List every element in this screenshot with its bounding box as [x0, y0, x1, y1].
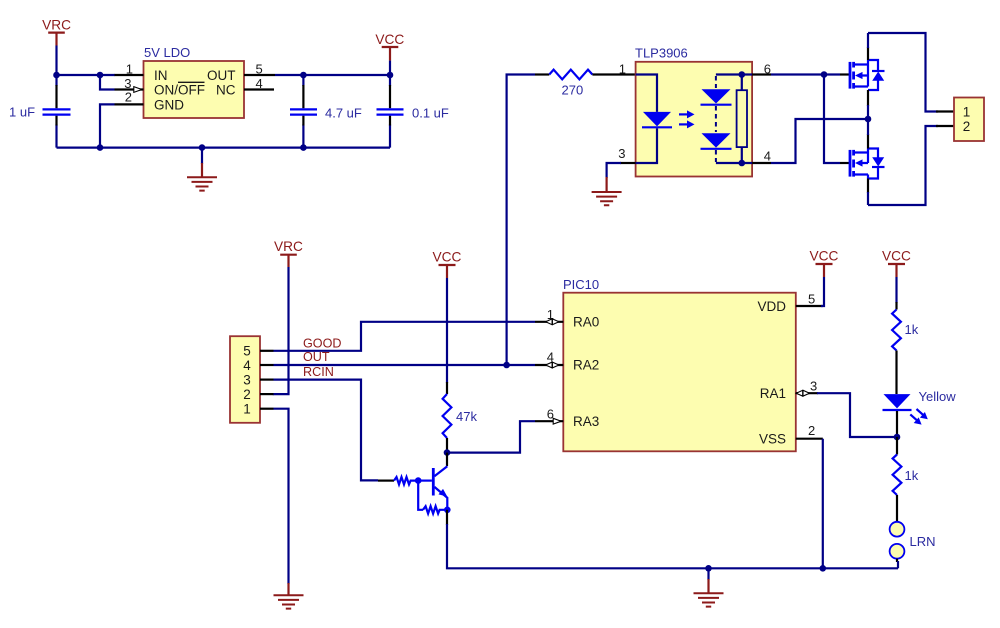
- pin 4 TLP stub: [752, 162, 771, 164]
- regulator U1 5V LDO: [144, 45, 245, 118]
- capacitor C2 4.7 uF: [290, 75, 362, 148]
- connector J1 RC input: [230, 336, 260, 423]
- wire pad to ground rail: [896, 559, 898, 562]
- pad LRN bottom: [890, 544, 905, 559]
- pin 4 bidir arrows: [546, 362, 559, 368]
- node RA2/OUT/TLP junction: [503, 362, 510, 369]
- wire pin6 to MOSFET gates: [771, 73, 840, 75]
- node input-rail junction at cap C1: [53, 72, 60, 79]
- wire upper MOSFET drain up: [867, 47, 869, 60]
- pin 3 RA1 stub: [796, 392, 818, 394]
- pin 4 RA2 stub: [535, 364, 563, 366]
- svg-text:6: 6: [764, 62, 771, 77]
- wire emitter down to ground rail: [446, 510, 448, 525]
- wire VCC down to 47k: [446, 278, 448, 383]
- svg-text:VCC: VCC: [810, 249, 839, 264]
- wire lower MOSFET bottom down: [867, 179, 869, 194]
- pin 5 OUT stub: [244, 74, 275, 76]
- node gate junction: [821, 71, 828, 78]
- transistor Q1 upper MOSFET: [840, 60, 885, 90]
- wire GND pin2 down to ground rail: [100, 104, 115, 147]
- svg-text:GND: GND: [154, 97, 184, 112]
- pin 1 RA0 stub: [535, 321, 563, 323]
- wire VRC down to pin 2: [273, 267, 289, 394]
- svg-text:OUT: OUT: [207, 68, 236, 83]
- wire gate junction down to lower gate: [824, 75, 840, 164]
- svg-text:3: 3: [243, 372, 251, 387]
- svg-text:RA1: RA1: [760, 386, 786, 401]
- pad LRN top: [890, 522, 905, 537]
- node ground rail junction center: [705, 565, 712, 572]
- wire GOOD net to RA0: [274, 322, 536, 351]
- svg-text:VSS: VSS: [759, 432, 786, 447]
- svg-text:1: 1: [126, 62, 133, 77]
- power symbol VCC (VDD): [810, 249, 839, 278]
- pin 6 input arrow: [553, 418, 561, 424]
- svg-text:VRC: VRC: [274, 239, 303, 254]
- svg-text:5: 5: [256, 62, 263, 77]
- svg-text:VCC: VCC: [375, 32, 404, 47]
- LED input diode inside TLP: [636, 75, 672, 164]
- capacitor C3 0.1 uF: [377, 75, 449, 148]
- svg-text:VDD: VDD: [757, 299, 786, 314]
- microcontroller U3 PIC10: [563, 277, 796, 451]
- wire VRC vertical to input rail: [55, 46, 57, 76]
- svg-text:RA2: RA2: [573, 358, 599, 373]
- pin 2 stub: [260, 393, 274, 395]
- pin 4 stub OUT: [260, 364, 274, 366]
- svg-text:PIC10: PIC10: [563, 277, 599, 292]
- svg-text:2: 2: [243, 387, 251, 402]
- svg-text:VCC: VCC: [433, 250, 462, 265]
- svg-text:5V LDO: 5V LDO: [144, 45, 190, 60]
- svg-text:0.1 uF: 0.1 uF: [412, 106, 449, 121]
- svg-text:TLP3906: TLP3906: [635, 46, 688, 61]
- wire input rail y=75: [57, 74, 116, 76]
- svg-text:47k: 47k: [456, 409, 477, 424]
- svg-text:RA0: RA0: [573, 315, 599, 330]
- pin 3 bidir arrows: [796, 390, 809, 396]
- svg-text:5: 5: [808, 292, 815, 307]
- pin 6 RA3 stub: [535, 420, 563, 422]
- pin 2 VSS stub: [796, 438, 823, 440]
- svg-text:VRC: VRC: [42, 18, 71, 33]
- wire pin1 down to ground: [274, 409, 289, 584]
- pin 6 TLP stub: [752, 73, 771, 75]
- optocoupler U2 TLP3906: [635, 46, 752, 177]
- pin 1 J2 stub: [936, 110, 954, 112]
- wire pin4 to sources node: [771, 119, 868, 163]
- svg-text:4: 4: [243, 358, 251, 373]
- svg-text:1: 1: [619, 62, 626, 77]
- pin 3 TLP stub to ground: [607, 146, 636, 178]
- svg-text:VCC: VCC: [882, 249, 911, 264]
- power symbol VCC (LED): [882, 249, 911, 278]
- svg-text:2: 2: [125, 90, 132, 105]
- light arrows inside TLP: [679, 110, 695, 128]
- svg-text:1k: 1k: [905, 322, 919, 337]
- svg-text:5: 5: [243, 344, 251, 359]
- pin 2 GND stub: [115, 103, 144, 105]
- power symbol VCC (top, above 0.1uF): [375, 32, 404, 61]
- node junction at 4.7uF: [300, 72, 307, 79]
- ground symbol below TLP: [592, 177, 622, 205]
- resistor R2 47k: [443, 382, 478, 453]
- node junction at x=100: [97, 72, 104, 79]
- power symbol VRC (middle): [274, 239, 303, 267]
- wire OUT pin to VCC rail: [275, 74, 390, 76]
- wire RCIN net down and to base resistor: [274, 380, 379, 481]
- photodiode chain inside TLP: [701, 75, 742, 164]
- wire VSS down to ground rail: [822, 439, 824, 569]
- wire lower MOSFET top to sources node: [867, 134, 869, 149]
- node LED/RA1/R4 junction: [894, 434, 901, 441]
- svg-text:3: 3: [810, 379, 817, 394]
- svg-text:4.7 uF: 4.7 uF: [325, 106, 362, 121]
- svg-text:1k: 1k: [905, 468, 919, 483]
- svg-text:2: 2: [963, 119, 971, 134]
- svg-text:4: 4: [256, 76, 263, 91]
- power symbol VCC (center): [433, 250, 462, 279]
- svg-text:RCIN: RCIN: [303, 365, 334, 379]
- pin 5 VDD stub: [796, 305, 823, 307]
- svg-text:IN: IN: [154, 68, 168, 83]
- node GND rail junction x=100: [97, 144, 104, 151]
- svg-text:1 uF: 1 uF: [9, 105, 35, 120]
- svg-text:OUT: OUT: [303, 350, 330, 364]
- wire ground rail of LDO section y=148: [57, 147, 391, 149]
- ground symbol bottom left: [274, 583, 304, 609]
- node ground rail junction at x=303: [300, 144, 307, 151]
- wire junction down to ON/OFF pin: [100, 75, 115, 90]
- node ground rail junction at x=202: [199, 144, 206, 151]
- svg-text:4: 4: [764, 149, 771, 164]
- svg-text:GOOD: GOOD: [303, 336, 341, 350]
- pin 3 stub RCIN: [260, 379, 274, 381]
- ground symbol bottom center: [694, 568, 724, 606]
- pin 1 stub: [260, 408, 274, 410]
- svg-text:Yellow: Yellow: [919, 389, 957, 404]
- node TLP internal top junction: [739, 71, 746, 78]
- wire OUT net to RA2: [274, 364, 536, 366]
- node TLP internal bottom junction: [739, 160, 746, 167]
- pin 1 IN stub: [115, 74, 144, 76]
- wire junction to RA3: [447, 421, 535, 452]
- wire VCC down to 1k: [895, 277, 897, 303]
- power symbol VRC (top-left): [42, 18, 71, 46]
- wire RA1 over to LED node: [817, 393, 897, 437]
- svg-text:LRN: LRN: [910, 534, 936, 549]
- svg-text:ON/OFF: ON/OFF: [154, 83, 205, 98]
- node 47k/RA3/collector junction: [444, 449, 451, 456]
- wire VCC stub to rail: [389, 61, 391, 75]
- LED D1 Yellow: [883, 389, 957, 437]
- node ground rail junction VSS: [820, 565, 827, 572]
- pin 3 ON/OFF stub: [115, 88, 144, 90]
- wire output loop bottom rail: [868, 126, 938, 205]
- resistor R4 1k: [893, 437, 919, 522]
- connector J2 output: [954, 98, 984, 142]
- pin 5 stub GOOD: [260, 350, 274, 352]
- svg-text:1: 1: [963, 105, 971, 120]
- svg-text:1: 1: [243, 401, 251, 416]
- pin 2 J2 stub: [936, 125, 954, 127]
- resistor R3 1k: [892, 302, 919, 394]
- pin 4 NC stub: [244, 88, 274, 90]
- svg-text:NC: NC: [216, 83, 236, 98]
- wire VCC to VDD: [821, 277, 824, 306]
- ground symbol under LDO: [187, 148, 217, 191]
- svg-text:RA3: RA3: [573, 414, 599, 429]
- svg-text:3: 3: [618, 146, 625, 161]
- svg-text:2: 2: [808, 423, 815, 438]
- pin 3 input arrow: [134, 87, 142, 93]
- resistor R1 270: [535, 70, 636, 98]
- capacitor C1 1 uF: [9, 75, 71, 148]
- wire from RA2 node up and over to resistor 270: [507, 75, 535, 366]
- wire output loop top rail: [868, 33, 938, 112]
- wire upper MOSFET source down to node: [867, 90, 869, 106]
- svg-text:270: 270: [562, 83, 584, 98]
- node junction at 0.1uF / VCC: [387, 72, 394, 79]
- node sources junction: [865, 116, 872, 123]
- transistor Q2 lower MOSFET: [840, 149, 885, 179]
- transistor Q3 NPN with base resistors: [378, 453, 451, 514]
- pin 1 bidir arrows: [546, 319, 559, 325]
- resistor internal TLP (vertical rectangle): [737, 75, 753, 164]
